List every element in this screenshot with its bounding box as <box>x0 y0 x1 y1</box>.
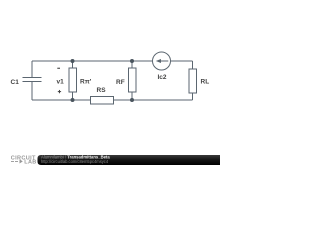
current source Ic2 arrowhead <box>156 59 161 63</box>
node junction top of RF <box>130 59 134 63</box>
current source Ic2 <box>153 52 171 70</box>
svg-text:RL: RL <box>201 78 210 85</box>
svg-text:C1: C1 <box>11 79 20 86</box>
node junction bottom of RF <box>130 98 134 102</box>
resistor RL <box>189 61 197 100</box>
svg-text:LAB: LAB <box>24 159 36 165</box>
capacitor C1 <box>23 78 42 82</box>
resistor RF <box>129 61 137 100</box>
wire bottom rail right segment <box>114 99 193 101</box>
wire left branch lower <box>31 82 33 101</box>
svg-text:Ic2: Ic2 <box>158 74 167 81</box>
svg-text:RS: RS <box>97 87 107 94</box>
node junction top of Rpi <box>71 59 75 63</box>
label v1 plus <box>58 91 61 92</box>
resistor RS <box>91 97 114 105</box>
svg-text:RF: RF <box>116 79 125 86</box>
CircuitLab logo <box>11 155 37 165</box>
svg-text:v1: v1 <box>57 78 65 85</box>
svg-text:http://circuitlab.com/c8em5pc4: http://circuitlab.com/c8em5pc4msyc4 <box>41 159 109 164</box>
watermark bar <box>38 155 221 165</box>
svg-text:Rπ’: Rπ’ <box>80 78 92 85</box>
resistor R&#960;' (Rpi) <box>69 61 77 100</box>
wire left branch upper <box>31 61 33 77</box>
label v1 minus <box>57 68 60 69</box>
wire top rail right segment <box>171 60 193 62</box>
node junction bottom of Rpi <box>71 98 75 102</box>
wire top rail left segment <box>32 60 153 62</box>
wire bottom rail left segment <box>32 99 91 101</box>
